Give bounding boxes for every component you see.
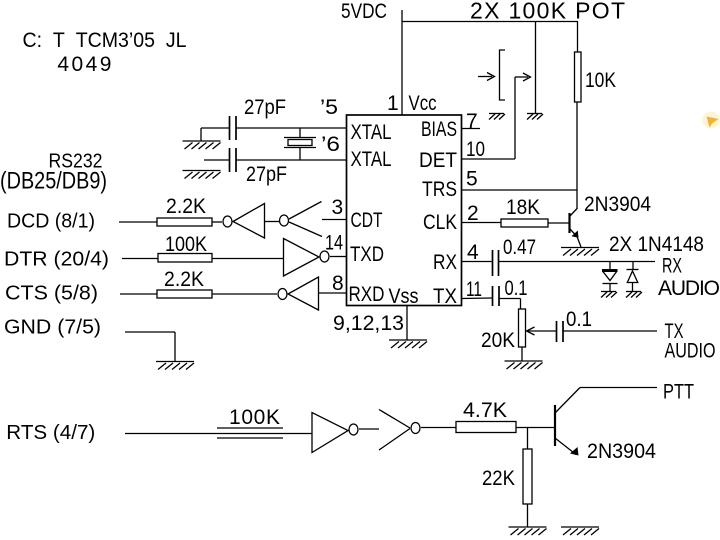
capacitor C2 27pF — [204, 148, 346, 172]
wire CLK pin 2 — [462, 222, 502, 224]
5VDC vertical wire — [401, 10, 403, 115]
svg-text:4: 4 — [467, 241, 479, 264]
svg-text:2X 100K POT: 2X 100K POT — [470, 0, 625, 24]
svg-text:2N3904: 2N3904 — [584, 193, 651, 216]
resistor 10K — [575, 22, 582, 103]
svg-text:100K: 100K — [165, 233, 207, 256]
label 20K — [481, 329, 515, 352]
label 2N3904 — [584, 193, 651, 216]
ground under P2 — [527, 114, 543, 120]
wire R7 to ground — [527, 504, 529, 527]
pin 15 label — [320, 96, 338, 119]
wire DTR row — [122, 258, 158, 260]
label TX — [665, 320, 684, 343]
U1 pin label XTAL1 — [351, 121, 392, 144]
svg-text:18K: 18K — [506, 196, 540, 219]
svg-text:AUDIO: AUDIO — [665, 340, 716, 363]
capacitor C3 0.47 — [493, 250, 499, 276]
wire R1 to inverter — [212, 221, 222, 223]
ground under D1 — [601, 292, 617, 298]
wire C4 to pot P3 — [499, 299, 521, 310]
ground under D2 — [626, 292, 642, 298]
ground under C2 — [183, 171, 221, 179]
svg-text:XTAL: XTAL — [351, 121, 392, 144]
svg-text:2N3904: 2N3904 — [587, 440, 656, 463]
svg-text:C: T TCM3’05 JL: C: T TCM3’05 JL — [23, 29, 187, 52]
label RX — [662, 255, 682, 278]
wire to CDT pin 3 — [322, 219, 346, 221]
svg-text:TX: TX — [433, 285, 457, 308]
label 100K RTS — [229, 406, 280, 429]
wire to TXD pin 14 — [330, 256, 346, 258]
svg-text:(DB25/DB9): (DB25/DB9) — [0, 168, 107, 195]
potentiometer P2 wiper arrow — [515, 73, 531, 81]
pin 5 label — [466, 168, 478, 191]
label DCD (8/1) — [7, 211, 95, 233]
svg-text:0.47: 0.47 — [503, 236, 536, 259]
inverter U2B open triangle — [289, 202, 322, 237]
U1 pin label CDT — [351, 209, 383, 232]
ground under Q1 emitter — [561, 248, 599, 256]
svg-text:AUDIO: AUDIO — [658, 277, 720, 300]
capacitor C1 27pF — [201, 116, 346, 141]
wire U2E to U2F — [359, 428, 379, 430]
svg-text:TXD: TXD — [350, 243, 384, 266]
label 2X 1N4148 — [609, 233, 704, 256]
label 22K — [482, 467, 515, 490]
svg-text:1: 1 — [387, 92, 399, 115]
svg-text:27pF: 27pF — [246, 163, 287, 186]
label DTR (20/4) — [4, 248, 109, 270]
label 0.1 — [566, 308, 592, 331]
svg-text:TRS: TRS — [422, 178, 457, 201]
yellow cursor artifact — [702, 112, 720, 129]
wire TRS pin 5 — [462, 189, 578, 191]
label GND (7/5) — [4, 316, 101, 338]
label 9,12,13 — [333, 312, 404, 335]
svg-text:5: 5 — [466, 168, 478, 191]
potentiometer P1 wiper arrow — [478, 73, 495, 81]
svg-text:DET: DET — [419, 149, 457, 172]
title text IC TCM3105 — [23, 29, 187, 52]
pin 11 label — [466, 278, 482, 301]
U1 pin label TXD — [350, 243, 384, 266]
wire RX pin 4 — [462, 261, 492, 263]
svg-text:22K: 22K — [482, 467, 515, 490]
pin 4 label — [467, 241, 479, 264]
svg-text:PTT: PTT — [663, 381, 694, 404]
svg-text:20K: 20K — [481, 329, 515, 352]
svg-text:10K: 10K — [585, 69, 616, 92]
svg-text:DTR (20/4): DTR (20/4) — [4, 248, 109, 270]
Vcc pin label — [409, 92, 437, 115]
wire TX pin 11 — [462, 297, 493, 300]
inverter U2D bubble — [278, 289, 287, 300]
svg-text:5VDC: 5VDC — [341, 0, 387, 23]
pin 1 label — [387, 92, 399, 115]
svg-text:RXD: RXD — [349, 283, 385, 306]
wire PTT — [580, 387, 657, 389]
resistor R3 2.2K — [157, 290, 212, 298]
label 10K — [585, 69, 616, 92]
label AUDIO — [658, 277, 720, 300]
svg-text:CDT: CDT — [351, 209, 383, 232]
U1 pin label BIAS — [421, 118, 457, 141]
svg-text:’6: ’6 — [321, 133, 340, 156]
pin 16 label — [321, 133, 340, 156]
pin 14 label — [325, 232, 343, 255]
wire junction to R7 — [527, 428, 529, 450]
label 100K — [165, 233, 207, 256]
wire TX audio — [563, 330, 657, 332]
wire P3 to ground — [521, 347, 523, 361]
wire to RXD pin 8 — [319, 292, 347, 294]
label 4.7K — [463, 399, 507, 422]
svg-text:0.1: 0.1 — [505, 277, 528, 300]
U1 pin label RX — [433, 251, 457, 274]
wire RX audio — [499, 261, 656, 263]
U1 pin label Vss — [389, 285, 419, 308]
svg-text:8: 8 — [332, 272, 344, 295]
potentiometer P3 wiper arrow — [527, 327, 557, 335]
potentiometer P2 body (right) — [535, 22, 537, 114]
svg-text:2: 2 — [467, 202, 479, 225]
label 2.2K — [166, 195, 206, 218]
inverter U2A triangle — [233, 204, 265, 239]
U1 pin label TX — [433, 285, 457, 308]
wire P2 wiper to DET pin 10 — [462, 77, 516, 159]
svg-text:CTS (5/8): CTS (5/8) — [5, 282, 98, 304]
svg-text:GND (7/5): GND (7/5) — [4, 316, 101, 338]
resistor R6 4.7K — [456, 422, 516, 433]
wire R2 to inverter U2C — [212, 258, 284, 260]
wire U2A to bubble — [265, 221, 280, 223]
wire DCD row — [119, 221, 157, 223]
svg-text:RX: RX — [662, 255, 682, 278]
U1 pin label RXD — [349, 283, 385, 306]
resistor R7 22K — [523, 449, 532, 504]
label 0.47 — [503, 236, 536, 259]
label RS232 — [49, 150, 103, 172]
wire R3 to inverter U2D — [212, 293, 277, 295]
svg-text:CLK: CLK — [423, 211, 457, 234]
wire 10K to TRS and Q1 collector — [576, 102, 578, 208]
resistor R4 18K — [501, 219, 548, 227]
label PTT — [663, 381, 694, 404]
inverter U2F open triangle — [379, 410, 410, 451]
svg-text:11: 11 — [466, 278, 482, 301]
label (DB25/DB9) — [0, 168, 107, 195]
transistor Q1 2N3904 — [570, 208, 582, 247]
wire RTS row — [125, 433, 312, 435]
svg-text:7: 7 — [466, 110, 478, 133]
svg-text:100K: 100K — [229, 406, 280, 429]
svg-text:BIAS: BIAS — [421, 118, 457, 141]
svg-text:2.2K: 2.2K — [166, 195, 206, 218]
wire CTS row — [120, 293, 157, 295]
potentiometer P1 body (left) — [500, 50, 506, 100]
inverter U2A bubble — [223, 216, 232, 227]
label RTS (4/7) — [6, 422, 95, 444]
svg-text:3: 3 — [332, 196, 344, 219]
crystal Y1 — [284, 128, 316, 160]
pin 3 label — [332, 196, 344, 219]
svg-text:DCD (8/1): DCD (8/1) — [7, 211, 95, 233]
inverter U2C bubble — [320, 251, 329, 262]
op IC U1 TCM3105 box — [347, 115, 462, 306]
potentiometer P3 20K body — [519, 309, 526, 347]
capacitor C4 0.1 — [493, 286, 500, 306]
resistor R5 100K — [217, 428, 283, 438]
resistor R1 2.2K — [157, 218, 212, 226]
5VDC power label — [341, 0, 387, 23]
label 2.2K — [164, 268, 204, 291]
label 27pF top — [244, 96, 286, 119]
svg-text:XTAL: XTAL — [351, 148, 392, 171]
inverter U2B bubble — [280, 215, 289, 226]
svg-text:RX: RX — [433, 251, 457, 274]
pin 2 label — [467, 202, 479, 225]
wire GND row — [125, 332, 175, 362]
label CTS (5/8) — [5, 282, 98, 304]
Vcc top rail wire — [402, 21, 578, 23]
ground bottom right — [561, 527, 599, 535]
inverter U2C triangle — [284, 239, 320, 277]
ground under R7 — [509, 527, 547, 535]
label 2N3904 bottom — [587, 440, 656, 463]
svg-text:Vss: Vss — [389, 285, 419, 308]
wire Vss to ground — [406, 306, 408, 340]
wire R6 to Q2 base — [516, 427, 555, 429]
wire R4 to Q1 base — [548, 222, 569, 224]
svg-text:14: 14 — [325, 232, 343, 255]
ground under P1 — [489, 114, 505, 120]
label 27pF bottom — [246, 163, 287, 186]
ground Vss — [389, 340, 427, 348]
svg-text:Vcc: Vcc — [409, 92, 437, 115]
inverter U2E bubble — [349, 424, 358, 435]
inverter U2F bubble — [411, 423, 420, 434]
svg-text:RTS (4/7): RTS (4/7) — [6, 422, 95, 444]
svg-text:9,12,13: 9,12,13 — [333, 312, 404, 335]
label AUDIO TX — [665, 340, 716, 363]
resistor R2 100K — [158, 254, 212, 263]
pin 8 label — [332, 272, 344, 295]
pin 10 label — [466, 138, 485, 161]
ground under C1 — [183, 141, 221, 149]
title text 4049 — [57, 53, 111, 76]
capacitor C5 0.1 — [557, 321, 564, 342]
U1 pin label CLK — [423, 211, 457, 234]
svg-text:27pF: 27pF — [244, 96, 286, 119]
U1 pin label TRS — [422, 178, 457, 201]
wire U2F to R6 — [421, 427, 456, 429]
svg-text:0.1: 0.1 — [566, 308, 592, 331]
label 0.1 — [505, 277, 528, 300]
diode D2 1N4148 — [627, 262, 639, 291]
ground GND row — [156, 362, 194, 370]
inverter U2D triangle — [288, 277, 319, 310]
diode D1 1N4148 — [602, 262, 618, 291]
svg-text:4.7K: 4.7K — [463, 399, 507, 422]
label 18K — [506, 196, 540, 219]
inverter U2E triangle — [312, 413, 348, 453]
svg-text:2.2K: 2.2K — [164, 268, 204, 291]
pin 7 label — [466, 110, 478, 133]
svg-text:10: 10 — [466, 138, 485, 161]
svg-text:2X 1N4148: 2X 1N4148 — [609, 233, 704, 256]
U1 pin label DET — [419, 149, 457, 172]
U1 pin label XTAL2 — [351, 148, 392, 171]
ground under P3 — [505, 361, 543, 369]
svg-text:’5: ’5 — [320, 96, 338, 119]
label 2X 100K POT — [470, 0, 625, 24]
wire BIAS pin 7 stub — [462, 128, 481, 130]
transistor Q2 2N3904 — [555, 388, 580, 456]
